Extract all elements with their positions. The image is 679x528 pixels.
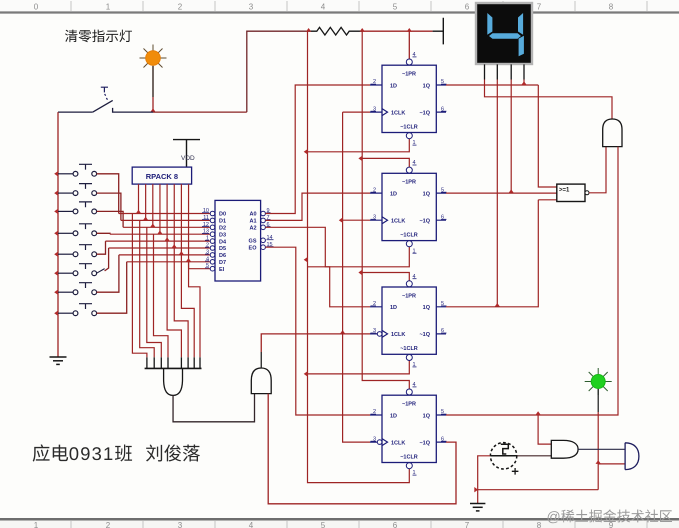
- key switch J7: [58, 283, 97, 295]
- resistor pack RPACK 8: [132, 167, 191, 184]
- wire clear bus: [308, 31, 410, 482]
- svg-text:3: 3: [249, 3, 254, 12]
- key switch J2: [58, 184, 97, 196]
- label 清零指示灯: [65, 30, 132, 43]
- wire row D4: [106, 240, 211, 242]
- wire J2 riser to D1 row: [97, 193, 121, 220]
- svg-text:~1CLR: ~1CLR: [400, 346, 418, 352]
- svg-text:5: 5: [206, 263, 209, 269]
- resistor R1: [308, 27, 362, 35]
- wire J8 riser to D7 row: [97, 262, 127, 313]
- junction top rail at FF1 PR drop: [407, 28, 412, 32]
- svg-text:2: 2: [106, 521, 111, 528]
- svg-text:1D: 1D: [390, 191, 397, 197]
- svg-text:~1CLR: ~1CLR: [400, 454, 418, 460]
- svg-text:D4: D4: [219, 239, 227, 245]
- svg-text:EI: EI: [219, 267, 225, 273]
- wire row D0: [119, 213, 211, 215]
- svg-text:A1: A1: [249, 219, 256, 225]
- key switch J8: [58, 304, 97, 316]
- wire row EI: [189, 268, 211, 270]
- svg-text:~1PR: ~1PR: [402, 293, 416, 299]
- wire J4 to D3 row: [97, 232, 110, 235]
- svg-text:1CLK: 1CLK: [391, 219, 405, 225]
- wire row D1: [121, 219, 210, 221]
- wire FF1 1Q row: [446, 84, 538, 86]
- wire display pin4 drop: [523, 80, 525, 86]
- svg-text:D2: D2: [219, 226, 226, 232]
- junction display pin4 on FF1 1Q row: [521, 81, 526, 85]
- wire FF3 1Q branch to OR1 input3: [446, 200, 557, 307]
- seven segment display U9: [476, 3, 532, 64]
- label 应电0931班 刘俊落: [33, 444, 200, 461]
- top ruler strip: [0, 0, 679, 13]
- wire FF4 notQ feedback to U3 input: [268, 394, 456, 504]
- svg-text:9: 9: [609, 521, 614, 528]
- junctions RPACK pins on rows: [136, 210, 191, 262]
- wires display pins: [485, 64, 525, 79]
- svg-text:D5: D5: [219, 246, 226, 252]
- wire J7 riser to D6 row: [97, 255, 119, 292]
- svg-text:1CLK: 1CLK: [391, 332, 405, 338]
- svg-text:RPACK 8: RPACK 8: [146, 172, 178, 181]
- svg-text:5: 5: [321, 521, 326, 528]
- wire display pin3 drop to FF2 1Q row: [510, 80, 512, 194]
- wire preset bus: [362, 31, 409, 389]
- AND gate U4 2-input: [603, 119, 622, 147]
- wire J1 riser to D0 row: [97, 174, 119, 214]
- wire top supply rail: [247, 31, 433, 112]
- svg-text:2: 2: [206, 243, 209, 249]
- svg-text:~1PR: ~1PR: [402, 180, 416, 186]
- wire cascade feed D5 to AND input 6: [174, 248, 188, 357]
- wire cascade feed D3 to AND input 4: [154, 234, 169, 357]
- svg-text:1: 1: [206, 236, 209, 242]
- svg-text:1CLK: 1CLK: [391, 440, 405, 446]
- wire OR1 output to U4 input1: [589, 147, 606, 193]
- svg-text:2: 2: [178, 3, 183, 12]
- svg-text:1D: 1D: [390, 305, 397, 311]
- flip-flop U8B 7474: [370, 382, 447, 476]
- wires RPACK pin drops: [139, 184, 189, 269]
- junction display pin2 on FF3 1Q row: [495, 303, 500, 307]
- svg-text:~1Q: ~1Q: [419, 110, 430, 116]
- junction clock bus on U3 output row: [340, 330, 345, 334]
- LED2 green run indicator: [585, 368, 612, 395]
- junction top rail at resistor left: [306, 28, 311, 32]
- ground bottom: [470, 504, 485, 511]
- wire row D5: [109, 247, 211, 249]
- wire cascade feed D4 to AND input 5: [167, 241, 181, 357]
- svg-text:~1Q: ~1Q: [419, 332, 430, 338]
- svg-text:4: 4: [249, 521, 254, 528]
- svg-text:14: 14: [267, 235, 273, 241]
- junction clock bus FF2: [339, 218, 343, 223]
- wire U2 output to U3 input: [173, 394, 254, 422]
- key switch J6: [58, 264, 105, 276]
- svg-text:~1CLR: ~1CLR: [400, 233, 418, 239]
- wire J5 riser to D4 row: [97, 241, 106, 254]
- wire cascade feed D2 to AND input 3: [147, 227, 162, 357]
- svg-text:~1Q: ~1Q: [419, 440, 430, 446]
- wire cascade feed D1 to AND input 2: [140, 220, 155, 357]
- svg-text:1: 1: [106, 3, 111, 12]
- wire LED2 drop: [597, 389, 599, 412]
- ground left bus: [50, 357, 67, 364]
- switch S1 (clear key): [58, 100, 153, 112]
- svg-text:A2: A2: [249, 226, 256, 232]
- wire cascade feed D0 to AND input 1: [132, 214, 147, 358]
- svg-text:3: 3: [178, 521, 183, 528]
- junction FF4 1Q row feedback tap: [535, 411, 540, 415]
- watermark @稀土掘金技术社区: [548, 509, 672, 523]
- wire LED2 branch to buffer lower input: [598, 463, 625, 465]
- AND gate U5 2-input: [551, 440, 578, 458]
- svg-text:0: 0: [34, 3, 39, 12]
- svg-text:1D: 1D: [390, 413, 397, 419]
- svg-text:4: 4: [321, 3, 326, 12]
- svg-text:10: 10: [203, 208, 209, 214]
- wire display pin2 drop to FF3 1Q row: [496, 80, 498, 307]
- wire U1 EO to FF4 1D: [265, 247, 370, 415]
- LED1 orange indicator lamp: [140, 45, 167, 72]
- wire clock bus: [343, 112, 370, 442]
- wire J3 riser to D2 row: [97, 211, 124, 227]
- encoder U1 74148: [202, 200, 274, 281]
- wire row D3: [110, 233, 210, 235]
- flip-flop U8A 7474: [370, 274, 447, 368]
- clock source V1: [490, 443, 518, 475]
- OR gate OR1 (IEC): [557, 184, 589, 201]
- junctions on left key bus: [54, 171, 58, 316]
- svg-text:D7: D7: [219, 260, 226, 266]
- wire FF2 1Q row to OR1 input2: [446, 192, 557, 194]
- flip-flop U7A 7474: [370, 52, 447, 146]
- wire left key bus: [57, 112, 59, 357]
- AND gate U2 8-input (switch detector): [145, 357, 202, 395]
- wire U1 A0 to FF1 1D: [265, 85, 370, 214]
- wire display pin1 to U4 output: [485, 80, 613, 120]
- wire U1 A2 to FF3 1D: [265, 227, 370, 306]
- flip-flop U7B 7474: [370, 160, 447, 254]
- svg-text:~1CLR: ~1CLR: [400, 124, 418, 130]
- wire FF1 1Q branch to OR1 input1: [538, 85, 557, 187]
- svg-text:D6: D6: [219, 253, 226, 259]
- svg-text:1: 1: [34, 521, 39, 528]
- wire FF1 preset drop: [408, 31, 410, 59]
- wire row D6: [119, 254, 210, 256]
- wire S1 to LED junction to left drop: [153, 111, 247, 113]
- junction LED2 branch: [596, 460, 601, 464]
- junctions preset bus: [358, 156, 362, 275]
- svg-text:~1PR: ~1PR: [402, 72, 416, 78]
- wire cascade feed D6 to AND input 7: [181, 255, 194, 357]
- svg-text:D1: D1: [219, 219, 226, 225]
- VDD supply: [173, 140, 200, 168]
- svg-text:A0: A0: [249, 212, 256, 218]
- AND gate U3 2-input: [251, 368, 271, 394]
- junction display pin3 on FF2 1Q row: [509, 189, 514, 193]
- svg-text:8: 8: [537, 521, 542, 528]
- wire U1 A1 to FF2 1D: [265, 193, 370, 220]
- key switch J5: [58, 245, 97, 257]
- svg-text:8: 8: [609, 3, 614, 12]
- wire clock left to ground: [478, 489, 599, 491]
- svg-text:6: 6: [393, 521, 398, 528]
- svg-text:6: 6: [465, 3, 470, 12]
- svg-text:7: 7: [537, 3, 542, 12]
- svg-text:12: 12: [203, 222, 209, 228]
- key switch J4: [58, 224, 97, 236]
- wire FF4 1Q row: [446, 147, 618, 415]
- junctions clear bus: [304, 149, 308, 377]
- svg-text:~1PR: ~1PR: [402, 402, 416, 408]
- svg-text:1Q: 1Q: [423, 305, 431, 311]
- svg-text:>=1: >=1: [559, 188, 570, 194]
- wire U5 output to buffer: [578, 448, 625, 450]
- svg-text:7: 7: [465, 521, 470, 528]
- power bar terminal: [433, 18, 444, 45]
- junction clock ground riser: [474, 487, 478, 492]
- key switch J3: [58, 202, 97, 214]
- svg-text:13: 13: [203, 229, 209, 235]
- svg-text:GS: GS: [249, 239, 257, 245]
- key switch J1: [58, 164, 97, 176]
- junction LED1 on rail: [150, 108, 155, 112]
- svg-text:D0: D0: [219, 212, 226, 218]
- bottom ruler strip: [0, 519, 679, 528]
- wire U3 output to clock bus: [260, 352, 262, 368]
- svg-text:D3: D3: [219, 232, 226, 238]
- svg-text:1Q: 1Q: [423, 83, 431, 89]
- wire LED1 to rail: [152, 66, 154, 97]
- svg-text:VDD: VDD: [181, 155, 195, 162]
- svg-text:1CLK: 1CLK: [391, 110, 405, 116]
- wire feedback tap to U5 input1: [538, 415, 551, 444]
- wire J6 riser to D5 row: [105, 248, 109, 271]
- svg-text:1D: 1D: [390, 83, 397, 89]
- buffer U6 indicator: [625, 443, 639, 470]
- wire row D7: [127, 261, 211, 263]
- svg-text:EO: EO: [249, 245, 258, 251]
- svg-text:5: 5: [393, 3, 398, 12]
- svg-text:~1Q: ~1Q: [419, 219, 430, 225]
- svg-text:1Q: 1Q: [423, 413, 431, 419]
- wire clock output to U5 input2: [517, 455, 551, 457]
- wire cascade feed D7 to AND input 8: [189, 262, 200, 358]
- junction top rail at resistor right: [360, 28, 365, 32]
- svg-text:1Q: 1Q: [423, 191, 431, 197]
- wire row D2: [123, 226, 210, 228]
